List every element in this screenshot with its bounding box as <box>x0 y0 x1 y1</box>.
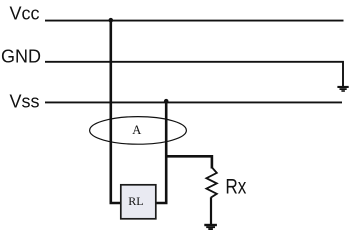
ground below Rx (signal ground bars) <box>204 224 217 230</box>
svg-text:A: A <box>132 123 141 137</box>
resistor Rx (zigzag) <box>206 168 216 198</box>
wire GND bus <box>45 62 343 86</box>
wire left drop from Vcc to RL <box>111 21 121 203</box>
svg-text:RL: RL <box>128 194 143 208</box>
wire Vss bus <box>45 101 342 103</box>
wire branch to Rx <box>166 156 212 168</box>
wire right drop from Vss to RL <box>156 102 166 203</box>
resistor RL (box) <box>121 185 156 219</box>
node Vss junction <box>164 99 169 104</box>
svg-text:Vss: Vss <box>10 92 40 112</box>
ammeter U1 (ellipse) <box>90 117 187 145</box>
svg-text:Rx: Rx <box>225 175 246 198</box>
svg-text:Vcc: Vcc <box>10 4 40 24</box>
ground GND (earth bars) <box>337 86 348 92</box>
node Vcc junction <box>109 18 114 23</box>
wire Rx bottom lead <box>210 197 212 224</box>
svg-text:GND: GND <box>1 46 41 66</box>
wire Vcc bus <box>45 20 344 22</box>
